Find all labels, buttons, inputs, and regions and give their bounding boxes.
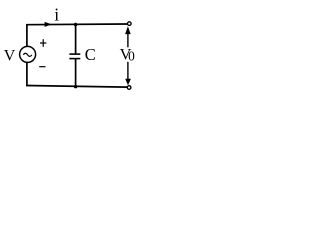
terminal bottom (open circle) [127, 86, 131, 90]
wire capacitor bottom lead [75, 59, 77, 87]
arrow down toward bottom terminal [125, 62, 131, 85]
plus sign [40, 39, 46, 47]
wire top horizontal [26, 23, 127, 26]
capacitor C bottom plate [69, 58, 80, 60]
node junction dot bottom [74, 85, 78, 89]
wire from source top to top-left corner [26, 25, 28, 46]
terminal top (open circle) [128, 22, 132, 26]
current arrowhead i [45, 22, 52, 27]
node junction dot top [74, 23, 78, 27]
wire capacitor top lead [75, 25, 77, 54]
svg-text:C: C [85, 45, 96, 64]
svg-text:i: i [54, 5, 59, 25]
minus sign [39, 66, 45, 68]
wire bottom horizontal [26, 86, 127, 88]
voltage source V (AC) [20, 46, 36, 62]
svg-text:V: V [4, 48, 16, 65]
wire from source bottom to bottom-left corner [26, 63, 28, 86]
arrow up toward top terminal [125, 26, 131, 47]
capacitor C top plate [69, 53, 80, 55]
